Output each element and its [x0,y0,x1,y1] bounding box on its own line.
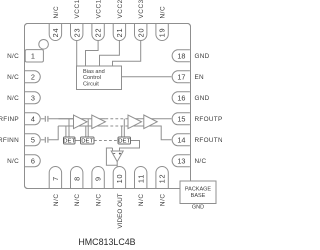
svg-text:16: 16 [177,93,185,102]
svg-text:VCC2: VCC2 [117,0,124,19]
svg-text:13: 13 [177,156,185,165]
svg-text:GND: GND [195,95,210,102]
svg-text:PACKAGE: PACKAGE [185,187,212,193]
svg-text:N/C: N/C [195,158,207,165]
svg-text:17: 17 [177,72,185,81]
svg-text:3: 3 [31,93,35,102]
svg-text:RFOUTP: RFOUTP [195,116,223,123]
svg-text:RFINP: RFINP [0,116,19,123]
svg-text:5: 5 [31,135,35,144]
svg-text:RFINN: RFINN [0,137,19,144]
svg-text:GND: GND [192,205,204,211]
svg-text:BASE: BASE [191,193,206,199]
svg-text:Circuit: Circuit [83,82,99,88]
svg-text:22: 22 [94,28,103,38]
svg-text:19: 19 [158,28,167,38]
svg-text:N/C: N/C [95,193,102,206]
svg-text:DET: DET [118,138,130,144]
svg-text:12: 12 [158,174,167,184]
svg-text:N/C: N/C [7,95,19,102]
svg-text:N/C: N/C [53,6,60,19]
svg-text:N/C: N/C [7,53,19,60]
svg-text:4: 4 [31,114,35,123]
svg-text:VCC3: VCC3 [138,0,145,19]
svg-text:Bias and: Bias and [83,69,105,75]
svg-text:GND: GND [195,53,210,60]
svg-text:VCC1: VCC1 [74,0,81,19]
svg-text:2: 2 [31,72,35,81]
svg-text:11: 11 [136,174,145,183]
svg-text:N/C: N/C [138,193,145,206]
svg-text:23: 23 [72,28,81,38]
svg-text:EN: EN [195,74,205,81]
svg-text:10: 10 [115,174,124,184]
svg-text:18: 18 [177,51,185,60]
svg-text:N/C: N/C [53,193,60,206]
svg-text:N/C: N/C [160,6,167,19]
svg-text:HMC813LC4B: HMC813LC4B [78,237,135,247]
svg-text:8: 8 [72,176,81,181]
svg-text:N/C: N/C [74,193,81,206]
svg-text:15: 15 [177,114,185,123]
svg-text:6: 6 [31,156,35,165]
svg-text:N/C: N/C [7,74,19,81]
svg-text:VCC1: VCC1 [96,0,103,19]
svg-text:1: 1 [31,51,35,60]
svg-text:DET: DET [81,138,93,144]
svg-text:N/C: N/C [160,193,167,206]
svg-text:VIDEO OUT: VIDEO OUT [117,193,124,228]
svg-text:DET: DET [63,138,75,144]
svg-text:14: 14 [177,135,185,144]
svg-text:24: 24 [51,28,60,38]
svg-text:Control: Control [83,75,101,81]
svg-text:9: 9 [94,176,103,181]
svg-text:RFOUTN: RFOUTN [195,137,223,144]
svg-text:7: 7 [51,176,60,181]
svg-text:20: 20 [136,28,145,38]
svg-text:N/C: N/C [7,158,19,165]
svg-text:21: 21 [115,28,124,38]
